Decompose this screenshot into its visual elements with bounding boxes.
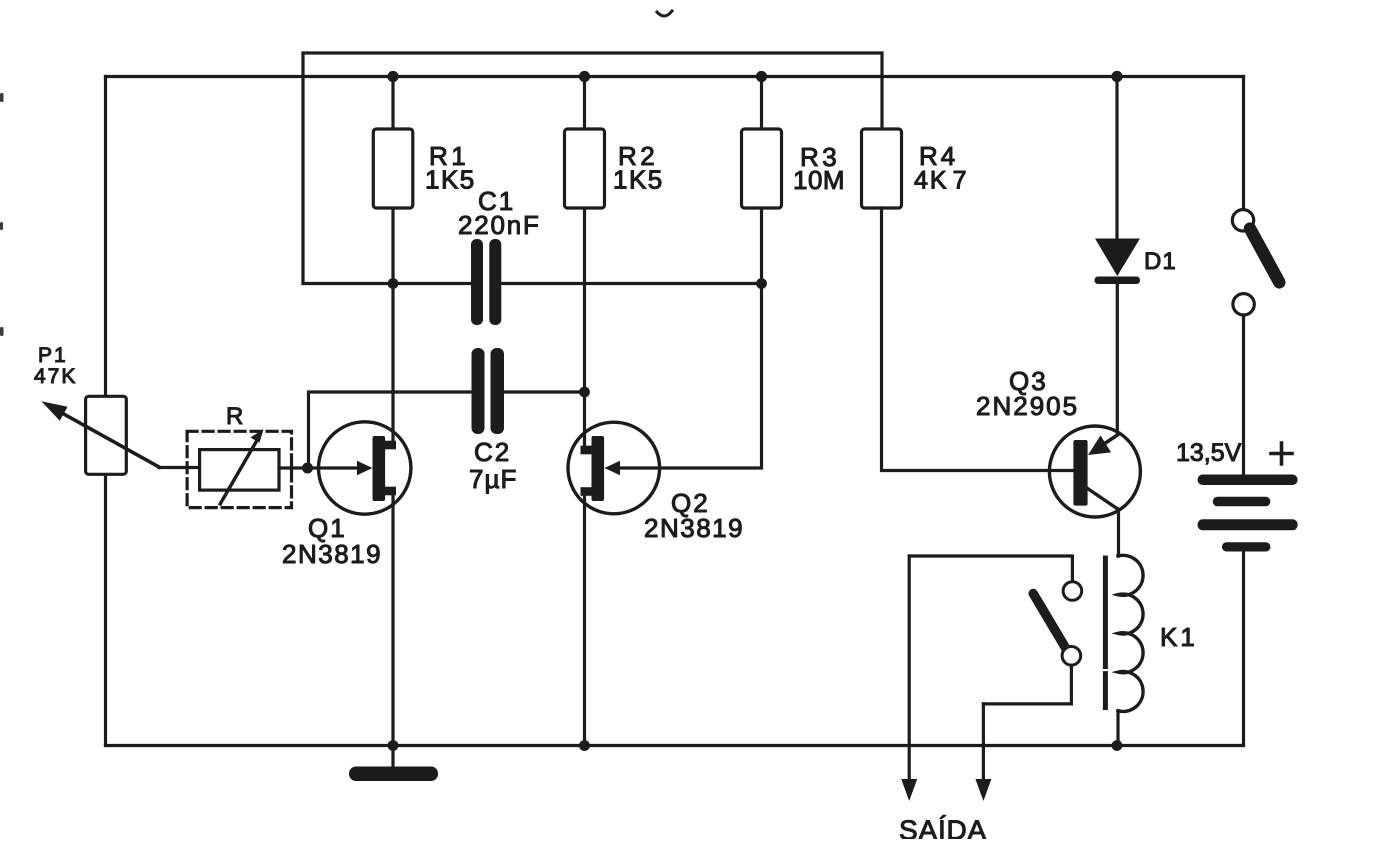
wire output lead 1 bbox=[908, 556, 911, 780]
wire C2 right segment to Q2 drain column bbox=[504, 390, 585, 393]
node junction R1 top bbox=[387, 71, 398, 82]
scan artifact curve top bbox=[657, 11, 672, 16]
resistor R2 bbox=[565, 77, 605, 393]
capacitor C1 bbox=[471, 239, 501, 325]
node junction D1 top bbox=[1111, 71, 1122, 82]
wire left rail (P1 column) bbox=[104, 77, 107, 746]
switch S1 bbox=[1232, 77, 1279, 475]
svg-text:13,5V: 13,5V bbox=[1176, 439, 1242, 467]
arrow output 2 bbox=[975, 779, 991, 801]
node gate Q1 junction bbox=[302, 463, 313, 474]
wire P1 to sensor R bbox=[159, 466, 200, 469]
wire Q2 source lead bbox=[583, 492, 586, 746]
svg-text:2N2905: 2N2905 bbox=[976, 391, 1079, 421]
relay contact network bbox=[909, 556, 1081, 704]
wire Q3 collector to relay coil bbox=[1117, 510, 1120, 557]
node junction R3 / C1 bbox=[756, 278, 767, 289]
wire supply bus y=76.5 bbox=[106, 75, 1244, 78]
svg-text:C2: C2 bbox=[474, 437, 511, 467]
resistor R3 bbox=[742, 77, 782, 284]
svg-text:7µF: 7µF bbox=[469, 464, 517, 494]
potentiometer P1 bbox=[41, 396, 159, 474]
transistor Q1 2N3819 bbox=[319, 422, 411, 514]
svg-text:2N3819: 2N3819 bbox=[282, 539, 382, 569]
wire mid coupling row left segment (to C1 left plate) bbox=[303, 282, 472, 285]
svg-text:D1: D1 bbox=[1144, 248, 1177, 275]
svg-text:R: R bbox=[226, 403, 245, 430]
scan artifact specks left edge bbox=[0, 93, 4, 336]
svg-text:4K 7: 4K 7 bbox=[914, 167, 969, 195]
svg-text:10M: 10M bbox=[793, 165, 845, 195]
battery B1 13,5V bbox=[1198, 475, 1298, 552]
svg-text:K1: K1 bbox=[1160, 622, 1198, 652]
wire Q1 drain lead bbox=[391, 284, 394, 443]
ground bbox=[349, 746, 438, 782]
wire Q1 source lead bbox=[391, 493, 394, 746]
node junction C2 / Q2 drain bbox=[579, 387, 590, 398]
node junction R3 top bbox=[756, 71, 767, 82]
transistor Q2 2N3819 bbox=[568, 422, 660, 514]
resistor R4 bbox=[862, 129, 1074, 471]
battery plus sign bbox=[1271, 443, 1292, 464]
node junction Q1 drain / C1 bbox=[388, 278, 399, 289]
transistor Q3 2N2905 bbox=[1049, 426, 1140, 517]
node junction relay coil bottom bbox=[1112, 740, 1123, 751]
relay K1 coil bbox=[1118, 555, 1143, 745]
wire top feedback box (left edge, top, down to R4 top) bbox=[303, 53, 882, 284]
svg-text:220nF: 220nF bbox=[458, 210, 541, 240]
wire sensor R to Q1 gate bbox=[279, 466, 360, 469]
node junction Q2 source bottom bbox=[579, 740, 590, 751]
relay K1 core bar bbox=[1103, 558, 1108, 708]
wire Q2 gate from R3 bbox=[619, 284, 762, 469]
wire mid coupling row right segment (C1 right plate to R3 column) bbox=[501, 282, 762, 285]
node junction Q1 source bottom bbox=[388, 740, 399, 751]
svg-text:1K5: 1K5 bbox=[613, 165, 664, 195]
svg-text:1K5: 1K5 bbox=[425, 165, 476, 195]
sensor R (dashed box, resistor, arrow) bbox=[187, 429, 291, 508]
wire bottom rail bbox=[106, 744, 1244, 747]
wire Q2 drain lead bbox=[583, 392, 586, 445]
arrow output 1 bbox=[901, 779, 917, 801]
svg-text:2N3819: 2N3819 bbox=[644, 513, 744, 543]
capacitor C2 bbox=[472, 348, 505, 434]
wire C2 row (Q1 gate riser + left segment to C2) bbox=[309, 392, 472, 468]
svg-text:P1: P1 bbox=[38, 344, 68, 367]
svg-text:SAÍDA: SAÍDA bbox=[899, 815, 987, 840]
wire output lead 2 bbox=[982, 704, 985, 780]
svg-text:47K: 47K bbox=[34, 365, 77, 388]
diode D1 bbox=[1095, 77, 1141, 435]
resistor R1 bbox=[373, 77, 413, 284]
wire battery to bottom rail bbox=[1242, 552, 1245, 746]
node junction R2 top bbox=[579, 71, 590, 82]
